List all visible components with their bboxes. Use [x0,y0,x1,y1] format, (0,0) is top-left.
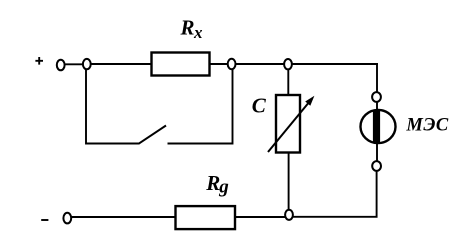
wire meter top terminal to meter body [376,102,378,112]
meter МЭС bottom terminal [372,161,381,171]
wire node C to top-right corner [292,63,378,65]
wire R_x to node B [210,63,228,65]
wire T1 to node A [65,63,83,65]
wire capacitor to node D [288,153,290,211]
capacitor C adjustment arrow [268,96,314,152]
resistor R_x [152,53,210,76]
capacitor C body [276,95,300,153]
switch S1 blade [139,126,167,144]
node A junction [83,59,91,69]
wire meter body to bottom terminal [376,142,378,161]
node D junction [285,210,293,220]
wire T2 to resistor R_g [71,216,175,218]
svg-text:g: g [218,177,229,198]
meter МЭС body [361,110,396,143]
meter МЭС top terminal [372,92,381,102]
node C junction [284,59,292,69]
svg-text:x: x [193,23,203,42]
wire R_g to node D [235,216,285,218]
wire top-right corner down to meter [376,63,378,92]
resistor R_g [176,206,236,229]
wire bottom terminal down to bottom-right corner [293,171,377,217]
svg-text:МЭС: МЭС [405,116,448,136]
svg-text:R: R [205,171,220,195]
terminal T1 (+) [57,60,65,71]
node B junction [228,59,236,69]
terminal T2 (-) [63,213,71,224]
wire switch right segment up to node B [168,69,233,144]
minus polarity label [41,219,48,221]
wire node C down to capacitor C [287,69,289,95]
wire node A to resistor R_x [91,63,152,65]
svg-text:C: C [252,94,267,118]
svg-text:R: R [180,16,195,40]
plus polarity label [35,57,43,65]
wire node B to node C [236,63,284,65]
wire switch branch: node A down [86,69,139,144]
